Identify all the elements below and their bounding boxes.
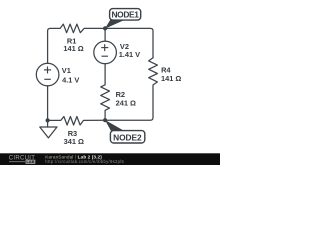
svg-text:1.41 V: 1.41 V	[119, 50, 140, 59]
svg-text:141 Ω: 141 Ω	[161, 74, 181, 83]
svg-text:NODE2: NODE2	[113, 133, 142, 143]
svg-text:http://circuitlab.com/c/e/ibbb: http://circuitlab.com/c/e/ibbby/9s2pl5	[45, 159, 124, 164]
svg-text:V1: V1	[62, 66, 71, 75]
svg-text:341 Ω: 341 Ω	[64, 137, 84, 146]
svg-text:R2: R2	[116, 90, 125, 99]
svg-text:241 Ω: 241 Ω	[116, 99, 136, 108]
svg-text:141 Ω: 141 Ω	[63, 44, 83, 53]
svg-text:NODE1: NODE1	[111, 10, 139, 20]
svg-text:LAB: LAB	[26, 159, 34, 164]
svg-text:4.1 V: 4.1 V	[62, 75, 79, 84]
